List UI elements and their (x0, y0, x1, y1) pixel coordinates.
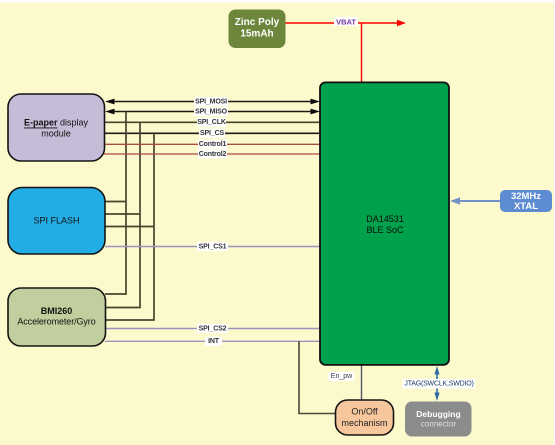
svg-text:INT: INT (208, 338, 220, 345)
svg-text:On/Off: On/Off (351, 407, 378, 417)
svg-text:Zinc Poly: Zinc Poly (235, 17, 280, 28)
svg-text:SPI_CS2: SPI_CS2 (199, 325, 227, 332)
svg-text:E-paper display: E-paper display (24, 118, 89, 128)
svg-text:DA14531: DA14531 (366, 214, 404, 224)
svg-text:SPI_MOSI: SPI_MOSI (195, 98, 227, 105)
svg-text:Control1: Control1 (199, 141, 227, 148)
svg-text:15mAh: 15mAh (240, 29, 273, 40)
svg-text:connector: connector (421, 420, 456, 429)
svg-text:mechanism: mechanism (341, 418, 387, 428)
svg-text:module: module (41, 129, 71, 139)
svg-text:SPI_MISO: SPI_MISO (195, 108, 228, 115)
svg-text:Debugging: Debugging (416, 409, 460, 419)
svg-text:En_pw: En_pw (331, 373, 353, 380)
svg-text:Control2: Control2 (199, 151, 227, 158)
svg-text:BLE SoC: BLE SoC (366, 225, 404, 235)
svg-text:VBAT: VBAT (336, 17, 356, 26)
svg-text:BMI260: BMI260 (41, 306, 73, 316)
svg-text:SPI_CLK: SPI_CLK (197, 119, 226, 126)
svg-text:XTAL: XTAL (514, 201, 538, 212)
svg-text:SPI FLASH: SPI FLASH (33, 216, 79, 226)
svg-text:SPI_CS1: SPI_CS1 (199, 243, 227, 250)
svg-text:SPI_CS: SPI_CS (200, 130, 224, 137)
svg-text:JTAG(SWCLK,SWDIO): JTAG(SWCLK,SWDIO) (404, 380, 473, 387)
svg-text:Accelerometer/Gyro: Accelerometer/Gyro (17, 317, 95, 327)
